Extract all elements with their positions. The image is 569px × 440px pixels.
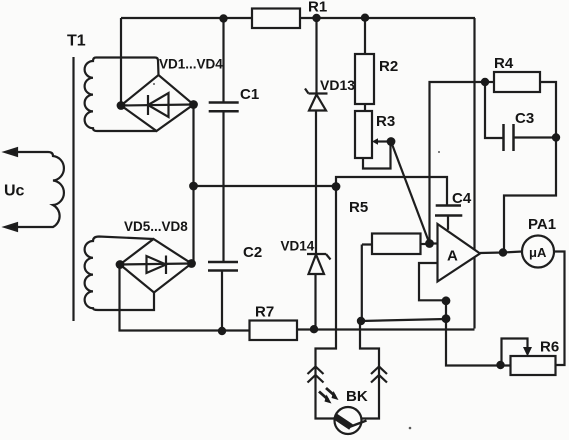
junction node: bridge1 - output: [189, 100, 198, 109]
svg-text:R4: R4: [494, 55, 514, 72]
wire C1 bottom to C2 top: [222, 111, 224, 262]
junction node: R3 wiper: [387, 137, 396, 146]
resistor R3 (preset): [355, 111, 378, 158]
wire R3 wiper stub: [378, 140, 391, 142]
wire R2 to R3: [364, 104, 366, 111]
transformer T1 primary arrow top: [5, 148, 17, 156]
wire C4 bottom stub to op-amp: [447, 216, 449, 230]
transformer T1 core: [72, 57, 74, 321]
photodetector BK body: [335, 407, 367, 434]
wire R4 right to output: [504, 82, 556, 253]
junction node: R6 wiper / left terminal: [496, 361, 504, 369]
diode bridge VD1...VD4: [121, 75, 194, 131]
zener diode VD14: [307, 254, 331, 274]
junction node: bridge2 - output: [187, 259, 196, 268]
svg-text:BK: BK: [346, 388, 368, 405]
junction node: non-inverting input net: [442, 296, 451, 305]
wire non-inverting loop: [419, 263, 446, 300]
junction node: bridge2 + output: [116, 260, 125, 269]
svg-text:T1: T1: [67, 33, 86, 50]
resistor R1: [252, 9, 300, 29]
svg-text:μA: μA: [529, 245, 547, 260]
capacitor C4: [435, 206, 462, 216]
svg-text:A: A: [447, 248, 458, 265]
wire bottom rail left (bridge2 minus to R7): [120, 265, 250, 331]
junction node: mid rail / R5 net: [332, 182, 341, 191]
svg-text:C1: C1: [240, 86, 259, 103]
transformer T1 primary arrow bottom: [5, 223, 17, 231]
scan specks: [153, 83, 440, 429]
junction node: op-amp output: [499, 248, 507, 256]
wire R6 riser: [446, 301, 511, 366]
BK cable break marks right: [371, 367, 387, 383]
svg-text:VD13: VD13: [320, 77, 355, 93]
svg-text:R2: R2: [379, 58, 398, 75]
resistor R6 (preset): [511, 347, 556, 375]
junction node: bottom rail / C2: [218, 327, 226, 335]
svg-text:C3: C3: [515, 110, 534, 127]
svg-text:C4: C4: [452, 190, 472, 207]
junction node: mid rail left: [189, 182, 198, 191]
wire bridge outputs vertical: [192, 105, 194, 264]
wire feedback riser right side: [473, 18, 475, 329]
wire R3 bottom loop: [363, 142, 391, 169]
junction node: bridge1 + output: [117, 101, 126, 110]
wire C1 top lead: [222, 19, 224, 103]
resistor R5: [372, 234, 421, 255]
resistor R4: [494, 72, 540, 92]
junction node: top rail / VD13: [312, 14, 320, 22]
wire VD13 top lead: [315, 18, 317, 94]
junction node: rail A / R5 left / BK right: [357, 317, 365, 325]
capacitor C2: [208, 262, 238, 271]
wire bottom rail right (R7 to feedback riser): [297, 328, 475, 330]
svg-text:R7: R7: [255, 304, 274, 321]
wire top rail: [121, 17, 475, 19]
op-amp U A: [438, 224, 481, 282]
wire left vertical from top rail to bridge1: [120, 18, 122, 106]
wire R3 wiper diagonal: [391, 142, 430, 244]
svg-text:C2: C2: [243, 244, 262, 261]
wire BK right branch: [360, 321, 379, 419]
wire R5 right lead: [421, 243, 430, 245]
wire inverting input riser to R4: [430, 82, 486, 244]
svg-text:VD14: VD14: [281, 239, 315, 254]
meter PA1: [522, 236, 554, 268]
wire mid rail: [194, 185, 337, 187]
wire PA1 to R6 right: [554, 252, 565, 366]
wire rail A (R5 left to R6 riser): [361, 319, 446, 321]
wire inverting stub: [429, 242, 438, 244]
svg-text:Uc: Uc: [4, 183, 25, 200]
diode bridge VD5...VD8: [120, 239, 192, 293]
capacitor C3: [504, 124, 514, 151]
transformer T1 secondary winding 2: [85, 237, 154, 311]
junction node: bottom rail / VD14: [310, 325, 318, 333]
wire BK left branch: [316, 187, 337, 419]
junction node: top rail / R2: [361, 14, 369, 22]
zener diode VD13: [305, 89, 328, 111]
svg-text:R1: R1: [308, 0, 327, 16]
wire R4 left lead: [485, 81, 494, 83]
wire C2 bottom lead: [221, 271, 223, 332]
wire VD13 to VD14: [315, 111, 317, 255]
svg-text:VD1...VD4: VD1...VD4: [159, 57, 223, 72]
transformer T1 secondary winding 1: [85, 58, 159, 132]
resistor R7: [250, 321, 298, 341]
wire node R5jct jog to C4 top: [336, 177, 447, 206]
transformer T1 primary winding: [8, 152, 64, 227]
junction node: R4 left / C3: [481, 78, 489, 86]
svg-text:VD5...VD8: VD5...VD8: [124, 219, 188, 234]
wire op-amp output: [480, 252, 522, 254]
wire R6 wiper: [502, 339, 528, 366]
junction node: top rail / C1: [219, 14, 227, 22]
wire R5 left lead: [362, 245, 372, 322]
wire VD14 bottom lead: [314, 274, 316, 329]
junction node: op-amp inverting input: [425, 239, 434, 248]
photodetector BK light arrows: [319, 388, 339, 404]
resistor R2: [355, 54, 374, 104]
wire R2 top lead: [364, 18, 366, 54]
junction node: C3 right / R4 right: [552, 133, 560, 141]
svg-text:PA1: PA1: [528, 216, 556, 233]
wire C3 left lead: [485, 82, 503, 138]
junction node: rail A / R6 riser: [442, 314, 451, 323]
wire C3 right lead: [514, 136, 557, 138]
svg-text:R3: R3: [376, 113, 395, 130]
BK cable break marks left: [308, 367, 324, 383]
capacitor C1: [209, 103, 239, 112]
svg-text:R5: R5: [349, 199, 368, 216]
svg-text:R6: R6: [540, 339, 559, 356]
